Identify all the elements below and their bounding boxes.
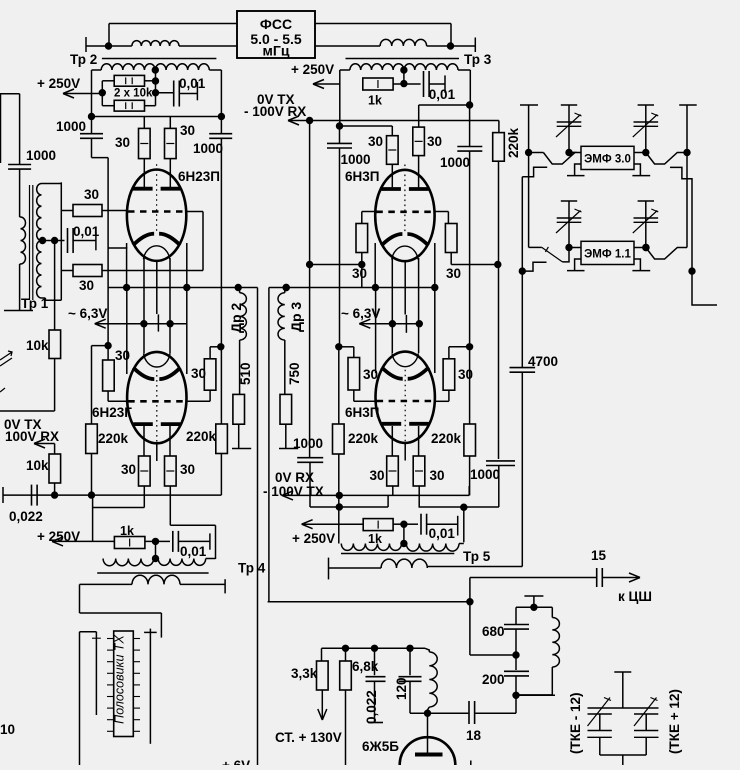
- svg-text:1k: 1k: [368, 532, 382, 546]
- svg-text:Др 2: Др 2: [228, 303, 244, 333]
- svg-text:30: 30: [370, 468, 385, 483]
- svg-text:510: 510: [238, 362, 253, 385]
- svg-text:Тр 4: Тр 4: [238, 561, 266, 576]
- svg-text:ЭМФ 3.0: ЭМФ 3.0: [584, 154, 631, 166]
- svg-text:6,8k: 6,8k: [352, 659, 379, 674]
- svg-text:0,022: 0,022: [364, 690, 379, 724]
- svg-text:30: 30: [427, 134, 442, 149]
- svg-text:6Ж5Б: 6Ж5Б: [362, 739, 399, 754]
- svg-text:30: 30: [363, 367, 378, 382]
- svg-text:Тр 1: Тр 1: [21, 296, 49, 311]
- svg-text:10: 10: [0, 722, 15, 737]
- svg-text:+ 250V: + 250V: [292, 531, 335, 546]
- svg-text:6Н23Г: 6Н23Г: [92, 405, 132, 420]
- svg-text:30: 30: [368, 134, 383, 149]
- svg-text:10k: 10k: [26, 338, 49, 353]
- svg-text:2 x 10k: 2 x 10k: [114, 88, 153, 100]
- svg-text:750: 750: [287, 362, 302, 385]
- svg-text:30: 30: [115, 135, 130, 150]
- svg-text:1k: 1k: [368, 94, 382, 108]
- svg-text:220k: 220k: [348, 431, 379, 446]
- svg-text:- 100V TX: - 100V TX: [263, 484, 324, 499]
- svg-text:0,01: 0,01: [429, 87, 456, 102]
- svg-text:ЭМФ 1.1: ЭМФ 1.1: [584, 249, 631, 261]
- svg-text:30: 30: [79, 278, 94, 293]
- svg-text:680: 680: [482, 624, 505, 639]
- svg-text:6Н3П: 6Н3П: [345, 169, 379, 184]
- svg-text:Др 3: Др 3: [288, 302, 304, 332]
- svg-text:220k: 220k: [431, 431, 462, 446]
- svg-text:6Н3П: 6Н3П: [345, 405, 379, 420]
- svg-text:0,022: 0,022: [9, 509, 43, 524]
- svg-text:мГц: мГц: [263, 43, 290, 59]
- svg-text:30: 30: [180, 123, 195, 138]
- svg-text:1000: 1000: [470, 467, 500, 482]
- svg-text:+ 6V: + 6V: [222, 758, 250, 765]
- svg-text:30: 30: [191, 366, 206, 381]
- svg-text:18: 18: [466, 728, 482, 743]
- svg-text:ФСС: ФСС: [260, 16, 292, 32]
- svg-text:Тр 5: Тр 5: [463, 549, 491, 564]
- svg-text:0,01: 0,01: [429, 526, 456, 541]
- svg-text:220k: 220k: [186, 429, 217, 444]
- svg-text:0V RX: 0V RX: [275, 470, 314, 485]
- svg-text:1000: 1000: [26, 148, 56, 163]
- svg-text:Тр 2: Тр 2: [70, 52, 97, 67]
- svg-text:Тр 3: Тр 3: [464, 52, 492, 67]
- svg-text:15: 15: [591, 548, 607, 563]
- svg-text:30: 30: [115, 348, 130, 363]
- svg-text:10k: 10k: [26, 458, 49, 473]
- svg-text:200: 200: [482, 672, 505, 687]
- svg-text:220k: 220k: [98, 431, 129, 446]
- svg-text:4700: 4700: [528, 354, 558, 369]
- svg-text:1000: 1000: [440, 155, 470, 170]
- svg-text:30: 30: [446, 266, 461, 281]
- svg-text:1000: 1000: [341, 152, 371, 167]
- svg-text:0,01: 0,01: [180, 544, 207, 559]
- svg-text:30: 30: [352, 266, 367, 281]
- svg-text:СТ. + 130V: СТ. + 130V: [275, 730, 342, 745]
- svg-text:(ТКЕ - 12): (ТКЕ - 12): [568, 693, 583, 755]
- svg-text:30: 30: [180, 462, 195, 477]
- svg-text:Полосовики ТХ: Полосовики ТХ: [113, 634, 127, 723]
- svg-text:0,01: 0,01: [179, 76, 206, 91]
- svg-text:+ 250V: + 250V: [291, 62, 334, 77]
- svg-text:к ЦШ: к ЦШ: [618, 589, 652, 604]
- svg-text:0,01: 0,01: [73, 224, 100, 239]
- svg-text:6Н23П: 6Н23П: [178, 169, 220, 184]
- svg-text:1k: 1k: [120, 524, 134, 538]
- svg-text:3,3k: 3,3k: [291, 666, 318, 681]
- svg-text:1000: 1000: [193, 141, 223, 156]
- svg-text:1000: 1000: [56, 119, 86, 134]
- svg-text:~ 6,3V: ~ 6,3V: [341, 306, 380, 321]
- svg-text:30: 30: [458, 367, 473, 382]
- svg-text:1000: 1000: [293, 436, 323, 451]
- svg-text:30: 30: [121, 462, 136, 477]
- svg-text:30: 30: [430, 468, 445, 483]
- svg-text:~ 6,3V: ~ 6,3V: [68, 306, 107, 321]
- svg-text:(ТКЕ + 12): (ТКЕ + 12): [667, 689, 682, 754]
- svg-text:220k: 220k: [506, 127, 521, 158]
- svg-text:100V RX: 100V RX: [5, 429, 59, 444]
- svg-text:30: 30: [84, 187, 99, 202]
